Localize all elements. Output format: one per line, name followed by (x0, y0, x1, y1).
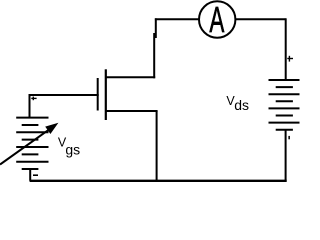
label Vds (226, 94, 249, 113)
wire right vertical down to battery Vds (285, 18, 287, 80)
battery Vds plate 8 short (-) (276, 129, 293, 131)
wire from battery Vds bottom to bottom rail (285, 130, 287, 181)
battery Vds plate 6 short (276, 115, 293, 117)
battery Vds plate 3 long (269, 93, 300, 95)
svg-text:A: A (209, 0, 225, 40)
battery Vgs plate 3 long (16, 131, 48, 133)
battery Vgs plate 2 short (22, 124, 39, 126)
transistor Q1 gate bar (97, 78, 99, 111)
wire top-right from ammeter to corner (236, 18, 286, 20)
battery Vgs plus sign (31, 97, 36, 101)
wire drain vertical lower segment (slight jog) (153, 33, 155, 78)
label Vgs (58, 136, 80, 158)
battery Vds plate 4 short (276, 100, 293, 102)
variable arrow shaft (0, 126, 54, 165)
battery Vgs minus tick (33, 174, 38, 176)
ammeter A1 circle (199, 1, 235, 37)
battery Vgs plate 4 short (22, 139, 39, 141)
wire bottom rail (30, 180, 287, 182)
wire drain vertical upper segment (155, 18, 157, 38)
wire source lead horizontal (106, 110, 158, 112)
svg-text:ds: ds (234, 97, 249, 113)
variable arrow head (45, 123, 58, 134)
wire gate lead horizontal (30, 94, 99, 96)
wire source vertical down to bottom rail (156, 111, 158, 181)
battery Vds plate 7 long (269, 122, 300, 124)
battery Vds plate 2 short (276, 86, 293, 88)
battery Vds plus sign (287, 56, 293, 62)
wire drain lead horizontal (106, 76, 155, 78)
transistor Q1 channel bar (105, 69, 107, 120)
battery Vds plate 5 long (269, 107, 300, 109)
battery Vgs plate 8 short (-) (22, 168, 39, 170)
wire top-left from drain vertical to ammeter (155, 18, 199, 20)
battery Vgs plate 5 long (16, 146, 48, 148)
wire Vgs bottom stub vertical (29, 169, 31, 181)
svg-text:gs: gs (65, 141, 80, 157)
battery Vgs plate 1 long (+) (16, 117, 48, 119)
battery Vds plate 1 long (+) (269, 79, 300, 81)
wire Vgs top stub vertical (29, 94, 31, 118)
battery Vgs plate 6 short (22, 153, 39, 155)
battery Vgs plate 7 long (16, 161, 48, 163)
battery Vds minus tick (288, 136, 290, 139)
